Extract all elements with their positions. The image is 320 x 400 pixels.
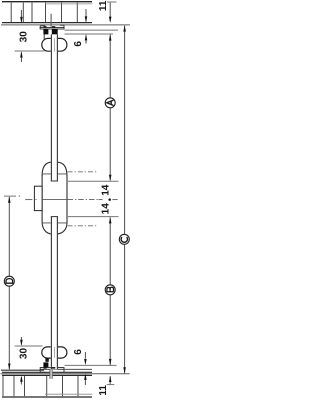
svg-text:30: 30 xyxy=(18,31,29,43)
svg-text:6: 6 xyxy=(73,349,84,355)
svg-text:14: 14 xyxy=(100,184,111,196)
svg-text:30: 30 xyxy=(18,348,29,360)
svg-text:6: 6 xyxy=(73,41,84,47)
svg-text:11: 11 xyxy=(98,385,109,396)
svg-text:11: 11 xyxy=(98,0,109,11)
svg-text:14: 14 xyxy=(100,203,111,215)
